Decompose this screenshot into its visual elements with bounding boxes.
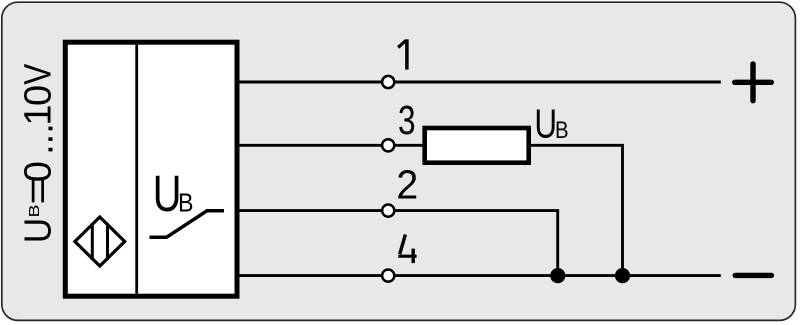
svg-text:U: U [16,218,58,244]
switch contact [150,211,225,238]
wire from resistor to minus rail [529,145,623,275]
svg-text:B: B [555,117,569,144]
label UB=0...10V (supply range, vertical) [16,63,61,243]
terminal 1 [382,76,394,88]
svg-text:V: V [17,63,59,85]
pin label 1 [398,39,407,69]
terminal 4 [382,270,394,282]
svg-text:0: 0 [18,85,60,106]
sensor face symbol (diamond) [75,217,125,266]
minus supply [735,273,771,278]
junction (load to minus rail) [615,268,630,283]
svg-text:B: B [25,205,42,218]
svg-text:U: U [534,101,557,147]
label UB (load voltage) [534,101,568,147]
svg-text:2: 2 [396,163,418,208]
svg-text:B: B [178,189,193,217]
terminal 2 [382,205,394,217]
wire 1 [237,81,721,84]
wire 4 [237,274,721,277]
plus supply [735,64,772,101]
svg-text:3: 3 [398,97,416,143]
wire 2 [237,211,558,276]
sensor body U1 [65,42,237,296]
junction (wire 2 to minus rail) [550,268,565,283]
wire 3 [237,144,424,147]
svg-text:0: 0 [18,161,60,182]
pin label 4 [398,235,416,264]
terminal 3 [382,139,394,151]
resistor (load) [425,128,529,163]
svg-text:1: 1 [18,104,60,125]
svg-text:...: ... [19,123,61,155]
label UB (inside sensor) [153,165,194,222]
